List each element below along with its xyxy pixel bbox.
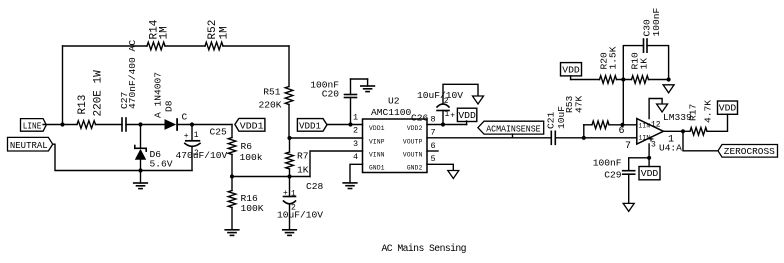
power VDD (U2) [457,108,476,121]
svg-text:C29: C29 [604,170,622,181]
svg-text:VDD1: VDD1 [369,125,385,132]
svg-text:8: 8 [431,114,436,124]
svg-text:VDD1: VDD1 [299,121,321,132]
svg-text:VDD: VDD [641,168,659,179]
U2 pin names [369,125,423,171]
comparator input texts [639,120,661,149]
svg-text:3: 3 [651,141,656,150]
svg-text:1: 1 [353,112,358,122]
svg-text:1IN: 1IN [639,123,651,130]
capacitor C29 [593,157,649,203]
svg-text:NEUTRAL: NEUTRAL [10,140,48,151]
resistor R52 [205,20,231,50]
svg-text:R52: R52 [207,20,219,40]
svg-text:1M: 1M [159,26,171,39]
ground (neutral) [134,171,148,189]
svg-text:ACMAINSENSE: ACMAINSENSE [486,123,541,134]
svg-text:1K: 1K [639,58,650,70]
svg-text:+: + [184,132,189,141]
capacitor C21 [546,106,568,145]
svg-text:2: 2 [353,126,358,136]
svg-text:100k: 100k [240,152,263,163]
svg-text:GND2: GND2 [407,164,423,171]
capacitor C27 [119,40,138,131]
comparator rail pin3 [647,144,651,167]
svg-text:VINP: VINP [369,138,385,145]
power VDD (pin3) [639,167,660,180]
ground (R16) [225,230,239,236]
svg-text:D8: D8 [164,100,175,112]
comparator power rail pin12 [649,99,662,119]
svg-text:1: 1 [445,110,450,119]
svg-text:6: 6 [619,126,625,137]
resistor R20 [599,46,619,83]
ground arrow (U2 GND2) [448,171,459,179]
capacitor C20 [310,79,367,125]
svg-text:1K: 1K [297,164,309,175]
wire R20-R10 junction [617,77,632,124]
svg-text:220K: 220K [258,100,281,111]
wire pin7 net [427,137,551,139]
wire VDD to R20 [571,79,600,81]
svg-text:5: 5 [431,154,436,164]
svg-text:4: 4 [353,152,358,162]
svg-text:AC Mains Sensing: AC Mains Sensing [382,243,467,254]
svg-text:47K: 47K [574,95,585,113]
comparator pin numbers [619,126,675,152]
resistor R6 [228,125,263,177]
ground (U2 GND1) [343,183,357,189]
svg-text:GND1: GND1 [369,164,385,171]
svg-text:C25: C25 [210,126,228,137]
svg-text:C: C [182,112,188,123]
wire pin8 net [427,121,467,127]
svg-text:C26: C26 [411,113,429,124]
svg-text:470nF/400 AC: 470nF/400 AC [127,40,138,109]
wire R13 to C27 [96,124,123,126]
wire R10 right junction [649,77,671,81]
connector NEUTRAL [8,137,53,151]
resistor R14 [147,19,171,50]
op-amp U2 AMC1100 box [363,96,428,173]
svg-text:R6: R6 [241,141,253,152]
wire top loop (LINE to R51) [63,46,290,125]
wire NEUTRAL net [53,144,192,172]
power VDD (divider) [561,63,582,80]
capacitor C26 [411,84,478,124]
svg-text:R13: R13 [77,95,89,115]
svg-text:VDD: VDD [458,110,476,121]
svg-text:1.5K: 1.5K [608,46,619,69]
svg-text:220E 1W: 220E 1W [93,70,105,117]
svg-text:4.7K: 4.7K [703,100,714,123]
wire pin2 net [290,137,363,139]
svg-text:C21: C21 [546,111,557,129]
capacitor C30 [623,7,668,79]
zener D6 [135,125,173,171]
svg-text:VOUTP: VOUTP [403,138,423,145]
svg-text:10uF/10V: 10uF/10V [417,90,463,101]
svg-text:R17: R17 [688,104,699,121]
svg-text:1: 1 [194,131,199,140]
wire pin1 net [327,122,363,126]
svg-text:ZEROCROSS: ZEROCROSS [724,146,775,157]
svg-text:12: 12 [651,120,661,129]
capacitor C28 [277,177,324,230]
ground arrow (pin12) [657,104,668,112]
svg-text:VDD: VDD [562,64,580,75]
svg-text:2: 2 [194,149,199,158]
wire comparator output [663,129,690,133]
wire pin3 net [310,151,363,177]
svg-text:5.6V: 5.6V [150,159,173,170]
svg-text:AMC1100: AMC1100 [371,107,412,118]
svg-text:100nF: 100nF [651,7,662,36]
svg-text:VDD2: VDD2 [407,125,423,132]
svg-text:10uF/10V: 10uF/10V [277,210,323,221]
resistor R10 [630,52,650,83]
label VDD1 (U2 pin1) [297,119,327,132]
wire C27 to D8 [126,122,165,126]
title [382,243,467,254]
label VDD1 (R6) [235,118,265,131]
diode D8 [153,72,188,130]
svg-text:R51: R51 [263,87,281,98]
svg-text:C20: C20 [322,89,340,100]
power VDD (R17) [718,101,738,114]
wire pin6 stub [427,150,438,152]
label ZEROCROSS [718,145,778,158]
svg-text:2: 2 [444,97,449,106]
svg-text:VDD1: VDD1 [240,121,264,132]
wire to ZEROCROSS [683,131,718,151]
svg-text:7: 7 [625,141,631,152]
svg-text:470uF/10V: 470uF/10V [176,150,228,161]
wire R6/R16 junction [230,174,310,178]
resistor R17 [688,100,714,135]
svg-text:2: 2 [291,204,296,213]
svg-text:LINE: LINE [23,121,42,132]
svg-text:+: + [283,189,288,198]
svg-text:1: 1 [291,190,296,199]
connector LINE [21,119,47,132]
comparator U4:A LM339 [637,112,692,154]
resistor R53 [564,95,637,137]
wire pin4 to ground [350,164,363,183]
wire pin5 to ground [427,164,453,170]
resistor R13 [77,70,105,128]
wire R17 to VDD [707,114,728,131]
ground (C20) [361,86,375,92]
ground arrow (divider) [663,85,674,93]
svg-text:1M: 1M [219,26,231,39]
svg-text:VINN: VINN [369,152,385,159]
svg-text:7: 7 [431,128,436,138]
svg-text:C28: C28 [306,181,324,192]
svg-text:+: + [450,111,455,120]
U2 pin numbers right [431,114,436,164]
svg-text:3: 3 [353,139,358,149]
ground arrow (C29) [623,203,634,211]
svg-text:100nF: 100nF [593,157,622,168]
svg-text:1: 1 [668,135,674,146]
wire C21 to comparator [555,136,637,140]
wire D8 to R6 top [177,122,232,126]
resistor R7 [286,136,309,177]
capacitor C25 [176,125,228,171]
resistor R16 [228,177,264,230]
svg-text:VOUTN: VOUTN [403,152,423,159]
svg-text:100K: 100K [241,203,264,214]
U2 pin numbers left [353,112,358,162]
svg-text:VDD: VDD [719,103,737,114]
svg-text:U2: U2 [388,96,400,107]
svg-text:A 1N4007: A 1N4007 [153,72,164,118]
wire LINE net [43,122,77,126]
resistor R51 [258,46,292,138]
ground (C28) [283,230,297,236]
svg-text:R7: R7 [297,151,309,162]
svg-text:6: 6 [431,141,436,151]
label ACMAINSENSE [478,121,544,138]
ground arrow (C26) [473,96,484,104]
